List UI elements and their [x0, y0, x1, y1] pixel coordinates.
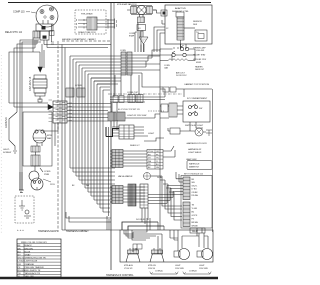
- svg-text:GROUND: GROUND: [5, 117, 8, 128]
- nested bends into right strip: [157, 176, 182, 220]
- svg-text:EVAP: EVAP: [129, 35, 135, 38]
- heater dashed box CONN-HTR: [75, 10, 106, 34]
- junction block pin labels: [49, 100, 73, 122]
- svg-text:BLUE: BLUE: [25, 251, 31, 253]
- ice motor trapezoid: [150, 254, 164, 263]
- thick jumper wire: [106, 129, 119, 137]
- svg-text:CONN: CONN: [75, 85, 82, 87]
- svg-text:WIRE COLOR CODE KEY: WIRE COLOR CODE KEY: [21, 242, 48, 244]
- heater pins right connector: [108, 19, 115, 29]
- middle vertical bus with top bends: [70, 56, 121, 192]
- dispenser lamp 1: [179, 249, 190, 260]
- svg-text:CONN-TOP: CONN-TOP: [127, 92, 139, 94]
- fan connector hatched: [31, 146, 40, 152]
- svg-text:TN: TN: [18, 273, 21, 275]
- svg-text:LIGHT: LIGHT: [175, 265, 181, 267]
- wires adc box to bundle: [154, 20, 165, 52]
- nested wires top of box: [124, 218, 162, 240]
- svg-text:HEATER: HEATER: [195, 65, 203, 68]
- svg-text:HARNESS-FF CONTROL: HARNESS-FF CONTROL: [106, 274, 134, 277]
- svg-text:-HARNESS FZ DOOR: -HARNESS FZ DOOR: [186, 142, 207, 145]
- middle bus bottom bends to right: [70, 168, 115, 212]
- svg-text:BR: BR: [18, 248, 21, 250]
- overload / relay cluster: [43, 20, 48, 24]
- left rails bottom: [19, 172, 23, 192]
- svg-text:GN-YL: GN-YL: [3, 149, 10, 151]
- adaptive defrost control box: [165, 5, 212, 44]
- fz door parts: [170, 128, 180, 134]
- svg-text:HARNESS-FZ: HARNESS-FZ: [188, 148, 202, 151]
- svg-text:HTR-DRAIN: HTR-DRAIN: [81, 13, 93, 16]
- svg-text:PWR: PWR: [44, 174, 50, 176]
- defrost control connector: [176, 12, 184, 17]
- svg-text:COMP 115: COMP 115: [13, 11, 25, 14]
- compartment separator dashed lines: [62, 40, 110, 42]
- svg-text:ORANGE: ORANGE: [25, 263, 35, 266]
- svg-text:CONN-A: CONN-A: [155, 270, 163, 273]
- svg-text:YELLOW: YELLOW: [25, 276, 35, 278]
- right rail: [212, 89, 214, 232]
- svg-text:GRAY: GRAY: [25, 254, 32, 257]
- svg-text:SW: SW: [199, 108, 202, 110]
- wire color code table: [17, 239, 61, 277]
- compressor COMP 115: [36, 5, 58, 27]
- svg-text:OR: OR: [18, 264, 22, 266]
- svg-text:SHELF-LT: SHELF-LT: [130, 145, 140, 147]
- svg-text:YL-BK: YL-BK: [192, 208, 198, 210]
- run capacitor CAP-RUN: [38, 67, 42, 72]
- svg-text:VALVE-WATER: VALVE-WATER: [118, 175, 133, 178]
- svg-text:RELAY-PTC 1/2: RELAY-PTC 1/2: [5, 31, 23, 34]
- svg-text:DEFROST: DEFROST: [195, 69, 205, 71]
- svg-text:MTR-AUG: MTR-AUG: [124, 264, 133, 267]
- svg-text:LT BU: LT BU: [18, 261, 24, 263]
- svg-text:MTR: MTR: [47, 135, 52, 137]
- dark center strip connector: [128, 184, 136, 206]
- small connector mid-left: [66, 88, 74, 97]
- right mid thermostats / heater rows: [173, 47, 179, 49]
- power cord plug CORD-POWER: [29, 171, 39, 181]
- svg-text:ADAPTIVE: ADAPTIVE: [175, 7, 186, 10]
- separator dash cabinet top: [108, 93, 183, 95]
- top border line: [8, 2, 211, 4]
- svg-text:L140-30F: L140-30F: [196, 50, 205, 52]
- svg-text:SWITCH-FZ LIGHT: SWITCH-FZ LIGHT: [185, 125, 204, 127]
- svg-text:LIGHT SHELF: LIGHT SHELF: [188, 152, 202, 154]
- svg-text:LIGHT: LIGHT: [148, 133, 155, 135]
- svg-text:BR-WH: BR-WH: [192, 222, 199, 224]
- svg-text:LT BU: LT BU: [148, 151, 154, 153]
- dispenser lamp 2: [202, 249, 213, 260]
- svg-text:CONN: CONN: [120, 50, 126, 52]
- svg-text:CABINET-TOP PORTION: CABINET-TOP PORTION: [184, 83, 209, 86]
- svg-text:TAN-BLACK TR: TAN-BLACK TR: [25, 272, 41, 275]
- auger motor trapezoid: [126, 254, 140, 263]
- svg-text:SCREW: SCREW: [3, 152, 12, 154]
- svg-text:AIR DUCT: AIR DUCT: [176, 72, 186, 75]
- svg-text:GREEN-YELLOW TR: GREEN-YELLOW TR: [25, 258, 47, 260]
- right connector block pair (into right of mid bus): [121, 52, 126, 75]
- svg-text:YL: YL: [156, 161, 158, 163]
- svg-text:WATER-ICE: WATER-ICE: [189, 163, 200, 166]
- svg-text:CORD: CORD: [44, 171, 51, 173]
- svg-text:LIGHT: LIGHT: [199, 265, 205, 267]
- svg-text:CAP-RUN 15: CAP-RUN 15: [29, 76, 32, 91]
- flag triangle: [139, 37, 148, 44]
- bottom border thick line: [0, 277, 218, 280]
- svg-text:OR-BK: OR-BK: [192, 192, 199, 194]
- labeled cell grid right: [147, 150, 163, 170]
- svg-text:RED-WHITE TR: RED-WHITE TR: [25, 270, 41, 272]
- bottom bracket marks: [151, 273, 210, 275]
- junction block right wires: [67, 104, 111, 122]
- vertical strip connector: [140, 184, 148, 208]
- svg-text:DEF: DEF: [193, 24, 198, 26]
- wires compressor area down-left: [9, 40, 41, 190]
- svg-text:115V: 115V: [50, 184, 55, 186]
- svg-text:GY: GY: [18, 255, 22, 257]
- svg-text:MTR-ICE: MTR-ICE: [148, 265, 157, 267]
- svg-text:115V 60W: 115V 60W: [175, 268, 184, 270]
- right switch cluster: [183, 101, 210, 122]
- pass-through wires to module: [148, 186, 183, 204]
- bundle rows y150-168: [110, 151, 147, 166]
- svg-text:FAN: FAN: [47, 137, 52, 140]
- svg-text:GY-PK: GY-PK: [192, 215, 198, 217]
- svg-text:RD-WH: RD-WH: [192, 195, 199, 197]
- svg-text:+ + +: + + +: [17, 228, 24, 232]
- icemaker box: [187, 161, 212, 170]
- bottom control box: [120, 230, 213, 262]
- svg-text:GN-YL: GN-YL: [192, 185, 198, 187]
- junction block CONN-CABINET: [48, 105, 53, 110]
- condenser fan box: [23, 112, 52, 166]
- condenser fan motor MTR-COND: [33, 130, 46, 143]
- svg-text:BROWN: BROWN: [25, 248, 34, 250]
- svg-text:LT BU 1/3: LT BU 1/3: [124, 268, 132, 270]
- wires right cluster: [160, 49, 195, 61]
- svg-text:BU: BU: [18, 251, 21, 253]
- svg-text:DRAIN TUBE 115V: DRAIN TUBE 115V: [78, 31, 96, 34]
- bundle row y97: [110, 97, 165, 102]
- svg-text:MAKER KIT: MAKER KIT: [189, 166, 200, 169]
- svg-text:450W: 450W: [196, 62, 201, 64]
- svg-text:LIGHT-FZ 115V 60W: LIGHT-FZ 115V 60W: [127, 115, 146, 117]
- bundle row y113-120 lights: [108, 112, 116, 121]
- svg-text:MACHINE COMPARTMENT · CABINET: MACHINE COMPARTMENT · CABINET: [62, 38, 97, 41]
- svg-text:HARNESS-MACH: HARNESS-MACH: [38, 230, 58, 233]
- svg-text:DUAL: DUAL: [157, 176, 163, 179]
- main vertical trunk: [110, 3, 112, 271]
- grounding dashed box: [15, 196, 34, 223]
- svg-text:KEY TO MODULE 115: KEY TO MODULE 115: [184, 174, 203, 176]
- svg-text:BLACK: BLACK: [25, 244, 33, 247]
- mid connector grid (light shelf): [119, 125, 134, 139]
- svg-text:SENSOR: SENSOR: [193, 21, 202, 23]
- page edge dotted artifact: [0, 55, 2, 235]
- thick bottom jumpers: [122, 222, 164, 230]
- svg-text:115V 60: 115V 60: [148, 268, 155, 270]
- ground zigzag wire left: [9, 112, 17, 150]
- svg-text:LIGHT BLUE: LIGHT BLUE: [25, 261, 38, 263]
- svg-text:RELAY: RELAY: [192, 230, 199, 233]
- svg-text:DOOR 115V: DOOR 115V: [176, 75, 187, 77]
- svg-text:PINK-WH TRACER: PINK-WH TRACER: [25, 266, 44, 269]
- svg-text:HARNESS-CABINET: HARNESS-CABINET: [66, 230, 89, 233]
- svg-text:FZ COMPARTMENT: FZ COMPARTMENT: [187, 97, 208, 100]
- svg-text:DOOR-FF: DOOR-FF: [136, 219, 146, 221]
- svg-text:115V 60W: 115V 60W: [199, 268, 208, 270]
- bundle rows y185-215 with strip connector: [110, 187, 145, 202]
- svg-text:CONN-B: CONN-B: [189, 271, 197, 273]
- aux small box: [133, 244, 142, 249]
- svg-text:60 CYCLE TOP MT 1/3: 60 CYCLE TOP MT 1/3: [118, 109, 140, 111]
- svg-text:WH-BK: WH-BK: [192, 225, 199, 227]
- svg-text:LT BU: LT BU: [192, 189, 198, 191]
